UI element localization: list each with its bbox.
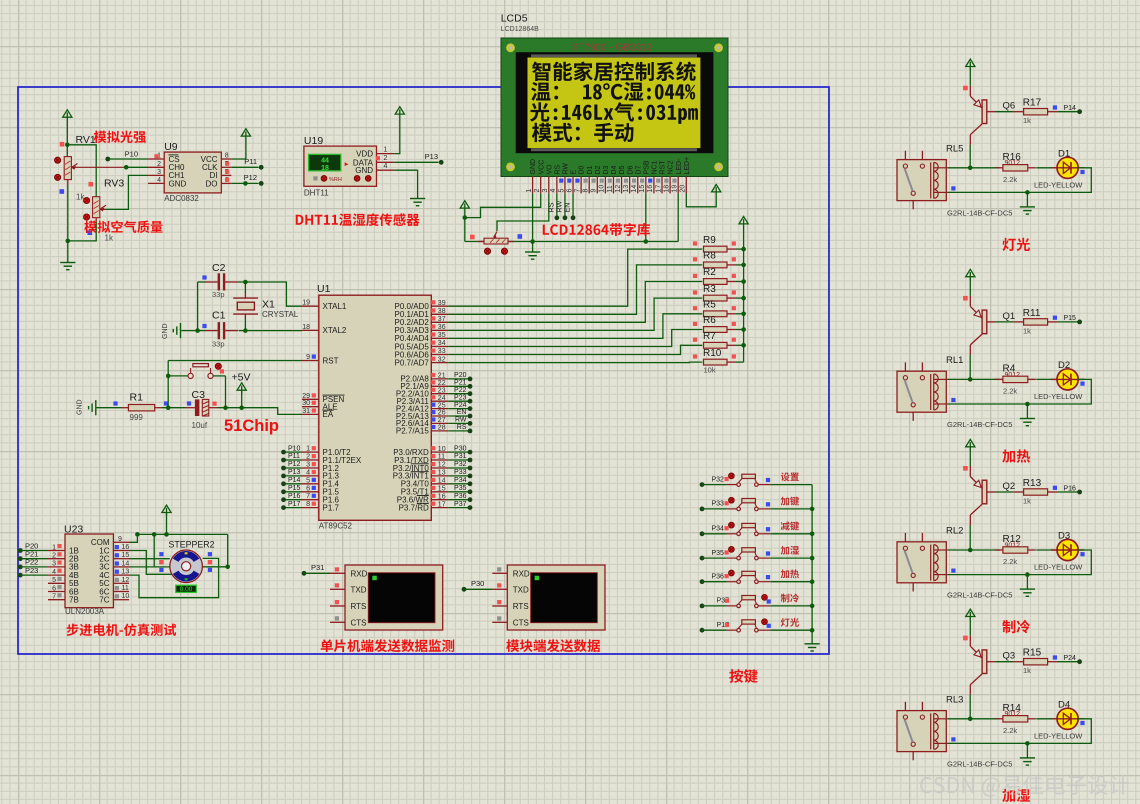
button 减键 (725, 522, 771, 535)
capacitor C1 (202, 310, 238, 349)
junction (1025, 402, 1030, 407)
label 加热 (1002, 449, 1030, 462)
svg-text:1k: 1k (1023, 326, 1031, 335)
svg-text:LED-YELLOW: LED-YELLOW (1034, 392, 1083, 401)
LCD screen (528, 54, 701, 151)
svg-text:4: 4 (306, 469, 310, 476)
wire ULN 1C to stepper (129, 551, 172, 575)
svg-text:17: 17 (655, 185, 662, 193)
junction (968, 548, 973, 553)
svg-text:13: 13 (122, 569, 130, 576)
button 加键 (725, 497, 771, 510)
svg-text:P34: P34 (454, 477, 467, 484)
svg-text:8: 8 (225, 153, 229, 160)
svg-text:R9: R9 (703, 235, 716, 246)
label 减键 (781, 521, 799, 530)
power arrow Q2 (966, 439, 975, 466)
svg-text:16: 16 (438, 493, 446, 500)
junction (1025, 741, 1030, 746)
wire button to bus (770, 557, 812, 559)
LCD screen text line1 (532, 61, 696, 81)
resistor R14 (995, 703, 1036, 735)
svg-text:1: 1 (52, 544, 56, 551)
junction (65, 143, 70, 148)
svg-text:32: 32 (438, 356, 446, 363)
svg-text:1k: 1k (1023, 116, 1031, 125)
svg-text:13: 13 (623, 185, 630, 193)
svg-text:R4: R4 (1003, 363, 1016, 374)
svg-text:P30: P30 (471, 579, 484, 588)
wire LCD pin3 VO to pot wiper (497, 193, 549, 231)
wire U19 GND (394, 170, 417, 198)
wire to RV3 top (67, 145, 96, 197)
wire C3 to 5V (218, 376, 242, 408)
svg-text:CTS: CTS (513, 618, 529, 627)
ULN2003A U23 body (64, 524, 113, 617)
svg-text:51Chip: 51Chip (224, 417, 279, 435)
node EN (571, 215, 576, 220)
wire RV1 supply (66, 121, 68, 157)
resistor R16 (995, 152, 1036, 184)
svg-text:16: 16 (122, 544, 130, 551)
label analog air quality (84, 220, 162, 233)
wire button to bus (770, 508, 812, 510)
wire to LED (1036, 167, 1056, 169)
power arrow pull-ups (739, 217, 748, 228)
wire RV divider bottom (68, 185, 96, 241)
svg-text:P21: P21 (454, 380, 467, 387)
svg-text:2: 2 (157, 161, 161, 168)
svg-text:29: 29 (302, 393, 310, 400)
svg-text:P10: P10 (288, 445, 301, 452)
junction (810, 556, 815, 561)
power +5V (232, 371, 251, 407)
junction (741, 279, 746, 284)
svg-text:Q6: Q6 (1003, 101, 1016, 112)
ground LCD contrast (525, 242, 540, 260)
svg-text:DO: DO (206, 179, 218, 188)
U1 pins right P2 (396, 373, 448, 436)
svg-text:2.2k: 2.2k (1003, 386, 1017, 395)
svg-text:EN: EN (457, 409, 467, 416)
svg-text:G2RL-14B-CF-DC5: G2RL-14B-CF-DC5 (947, 208, 1012, 217)
node P23 (18, 566, 48, 578)
wire to LED (1036, 549, 1056, 551)
label 设置 (781, 472, 799, 481)
svg-text:LCD5: LCD5 (501, 13, 528, 25)
svg-text:NC1: NC1 (652, 160, 659, 174)
resistor R13 (1014, 478, 1058, 506)
wire LED return (948, 550, 1091, 575)
svg-text:R14: R14 (1003, 703, 1022, 714)
svg-text:P31: P31 (454, 453, 467, 460)
U1 P1 port wires (281, 445, 302, 510)
svg-text:36: 36 (438, 324, 446, 331)
wire RST to U1 (168, 360, 302, 362)
wire U9 VCC to power (231, 140, 246, 160)
svg-text:TXD: TXD (513, 585, 529, 594)
resistor R8 (693, 251, 744, 268)
svg-text:4: 4 (384, 163, 388, 170)
svg-text:3: 3 (306, 462, 310, 469)
junction (239, 405, 244, 410)
svg-text:TXD: TXD (351, 585, 367, 594)
wire ULN 2C to stepper (129, 558, 170, 560)
svg-text:4: 4 (52, 569, 56, 576)
svg-text:11: 11 (438, 454, 445, 461)
svg-text:1k: 1k (1023, 497, 1031, 506)
wire LED return (948, 719, 1091, 744)
svg-text:CTS: CTS (351, 618, 367, 627)
junction (463, 215, 468, 220)
svg-text:▶: ▶ (345, 162, 349, 168)
junction (1025, 190, 1030, 195)
resistor R11 (1014, 308, 1058, 336)
stepper motor STEPPER2 (159, 539, 214, 582)
U1 P3 port wires (448, 445, 472, 510)
svg-text:2: 2 (384, 155, 388, 162)
LCD screen text line3 (530, 102, 698, 124)
svg-text:RL2: RL2 (946, 526, 963, 537)
junction (166, 374, 171, 379)
wire 5V to EA (242, 408, 302, 415)
svg-text:D5: D5 (619, 165, 626, 174)
svg-text:VDD: VDD (356, 150, 373, 159)
svg-text:RL3: RL3 (946, 694, 963, 705)
wire button to bus (770, 605, 812, 607)
junction (644, 239, 649, 244)
node P16 (1058, 485, 1082, 494)
node RW (563, 215, 568, 220)
resistor R7 (693, 331, 744, 348)
wire ULN 4C to stepper (129, 558, 219, 597)
svg-text:X1: X1 (262, 298, 275, 310)
svg-text:RTS: RTS (351, 602, 367, 611)
node P36 (700, 574, 727, 585)
svg-text:18: 18 (321, 165, 329, 172)
svg-text:P35: P35 (712, 550, 725, 557)
svg-text:28: 28 (438, 425, 446, 432)
svg-text:10k: 10k (704, 366, 716, 375)
U23 pins right (91, 536, 130, 605)
node RS (554, 215, 559, 220)
transistor value 9012 (1005, 372, 1021, 379)
resistor R3 (693, 284, 744, 301)
junction (243, 328, 248, 333)
svg-text:LED-YELLOW: LED-YELLOW (1034, 731, 1083, 740)
power arrow stepper (162, 505, 171, 516)
svg-text:RST: RST (660, 160, 667, 175)
svg-text:RS: RS (457, 424, 467, 431)
svg-text:10: 10 (122, 593, 130, 600)
svg-text:D2: D2 (595, 165, 602, 174)
wire LCD pin20 LED+ to power (686, 193, 716, 206)
node P11 (231, 157, 263, 170)
svg-text:P15: P15 (288, 485, 301, 492)
svg-text:STEPPER2: STEPPER2 (169, 539, 215, 549)
node P34 (700, 526, 727, 537)
svg-text:R7: R7 (703, 331, 716, 342)
wire coil row (948, 718, 1000, 720)
wire LCD pin15 PSB (645, 193, 647, 241)
node P20 (18, 541, 48, 553)
power arrow LED+ (712, 185, 721, 196)
wire pull-up rail (743, 228, 745, 363)
wire gnd to R1 (97, 407, 122, 409)
wire base (987, 321, 1014, 323)
wire coil row (948, 378, 1000, 380)
LED D4 (1034, 699, 1085, 740)
svg-text:D6: D6 (627, 165, 634, 174)
svg-text:P16: P16 (288, 493, 301, 500)
LED D2 (1034, 360, 1085, 401)
svg-text:P13: P13 (288, 469, 301, 476)
wire pot supply (464, 212, 466, 242)
node P21 (18, 550, 48, 562)
svg-text:R8: R8 (703, 251, 716, 262)
svg-text:1: 1 (384, 146, 388, 153)
junction (225, 565, 230, 570)
potentiometer RV3 (84, 178, 125, 243)
wire collector to coil (969, 145, 971, 168)
resistor R6 (693, 315, 744, 332)
wire collector to coil (969, 695, 971, 719)
svg-text:Q3: Q3 (1003, 651, 1016, 662)
wire LCD pin2 VCC (465, 193, 541, 217)
svg-text:44: 44 (321, 158, 329, 165)
junction (530, 239, 535, 244)
svg-text:C2: C2 (212, 262, 226, 274)
svg-text:Q1: Q1 (1003, 311, 1016, 322)
ground relay block (1020, 743, 1035, 765)
svg-text:11: 11 (122, 585, 129, 592)
resistor R10 (693, 348, 744, 375)
svg-text:P23: P23 (25, 566, 38, 575)
node P12 (231, 173, 263, 186)
svg-text:1k: 1k (1023, 666, 1031, 675)
svg-text:5: 5 (306, 477, 310, 484)
svg-text:2.2k: 2.2k (1003, 726, 1017, 735)
LCD header text ST7920 - GB2312 (572, 43, 653, 54)
svg-text:38: 38 (438, 308, 446, 315)
svg-text:GND: GND (77, 399, 84, 415)
svg-text:AT89C52: AT89C52 (319, 522, 353, 531)
svg-text:19: 19 (671, 185, 678, 193)
svg-text:U1: U1 (317, 283, 331, 295)
junction (741, 327, 746, 332)
wire C1 row to XTAL2 (198, 318, 302, 331)
svg-text:LCD12864B: LCD12864B (501, 26, 539, 33)
button 设置 (725, 473, 771, 486)
svg-text:7C: 7C (99, 596, 109, 605)
svg-text:D3: D3 (603, 165, 610, 174)
wire C2 right to XTAL1 (238, 282, 302, 306)
ground R1 (77, 399, 96, 415)
transistor Q2 (963, 466, 1015, 525)
svg-text:RXD: RXD (351, 569, 368, 578)
svg-text:P10: P10 (125, 150, 138, 159)
svg-text:R15: R15 (1023, 648, 1042, 659)
svg-text:P31: P31 (311, 563, 324, 572)
svg-text:10: 10 (438, 446, 446, 453)
svg-text:CRYSTAL: CRYSTAL (262, 310, 299, 319)
svg-text:2: 2 (534, 189, 541, 193)
resistor R17 (1014, 98, 1058, 126)
button 制冷 (725, 595, 771, 608)
label terminal 1 (321, 639, 455, 652)
svg-text:R3: R3 (703, 284, 716, 295)
svg-text:P32: P32 (454, 461, 467, 468)
svg-text:9: 9 (118, 536, 122, 543)
svg-text:P13: P13 (425, 152, 438, 161)
label 加湿 (1002, 789, 1030, 802)
svg-text:P20: P20 (454, 372, 467, 379)
node P10 (105, 150, 148, 162)
svg-text:NC2: NC2 (668, 160, 675, 174)
svg-text:2: 2 (52, 553, 56, 560)
wire RV3 wiper to CH1 (101, 175, 148, 209)
transistor Q1 (963, 296, 1015, 355)
wire to LED (1036, 378, 1056, 380)
svg-text:R10: R10 (703, 348, 722, 359)
svg-text:1: 1 (306, 446, 310, 453)
LCD module LCD5 labels (501, 13, 539, 34)
resistor R1 (113, 391, 168, 422)
wire R1 to RST net (162, 407, 187, 409)
svg-text:30: 30 (302, 400, 310, 407)
label 制冷 (781, 594, 799, 603)
svg-text:LED-: LED- (676, 158, 683, 175)
svg-text:24: 24 (438, 395, 446, 402)
svg-text:R17: R17 (1023, 98, 1042, 109)
wire coil row (948, 167, 1000, 169)
junction (66, 239, 71, 244)
junction (810, 532, 815, 537)
ADC U9 body (164, 141, 221, 203)
svg-text:D0: D0 (579, 165, 586, 174)
svg-text:34: 34 (438, 340, 446, 347)
svg-text:R1: R1 (130, 391, 144, 403)
transistor value 9012 (1005, 542, 1021, 549)
wire base (987, 661, 1014, 663)
DHT11 markers (313, 176, 371, 184)
svg-text:P12: P12 (288, 461, 301, 468)
wire button to bus (770, 484, 812, 486)
svg-text:33p: 33p (212, 340, 225, 349)
capacitor C2 (202, 262, 238, 299)
svg-text:14: 14 (438, 478, 446, 485)
node P24 (1058, 655, 1082, 664)
svg-text:GND: GND (355, 166, 373, 175)
node P15 (1058, 315, 1082, 324)
svg-text:%RH: %RH (329, 177, 342, 183)
resistor R4 (995, 363, 1036, 395)
ground crystal (162, 323, 181, 339)
sheet border (18, 87, 829, 654)
svg-text:3: 3 (157, 169, 161, 176)
svg-text:37: 37 (438, 316, 446, 323)
junction (741, 343, 746, 348)
junction (243, 280, 248, 285)
junction (968, 717, 973, 722)
svg-text:P23: P23 (454, 394, 467, 401)
svg-text:U9: U9 (164, 141, 178, 153)
label DHT11 sensor (296, 213, 420, 226)
svg-text:27: 27 (438, 417, 446, 424)
U1 P2 port wires (448, 372, 472, 433)
node P37 (700, 598, 730, 609)
wire LED return (948, 379, 1091, 404)
wire RST net riser (167, 361, 169, 408)
svg-text:R2: R2 (703, 267, 716, 278)
label 制冷 (1002, 620, 1030, 633)
U1 pins left (302, 300, 362, 513)
LCD screen text line4 (532, 123, 634, 142)
svg-text:14: 14 (631, 185, 638, 193)
svg-text:1k: 1k (105, 234, 114, 243)
ground relay block (1020, 575, 1035, 597)
svg-text:P34: P34 (712, 526, 725, 533)
relay RL5 (897, 143, 1012, 217)
svg-text:19: 19 (302, 300, 310, 307)
svg-text:3: 3 (542, 189, 549, 193)
svg-text:12: 12 (122, 577, 130, 584)
svg-text:P36: P36 (454, 493, 467, 500)
svg-text:P17: P17 (288, 501, 301, 508)
svg-text:R16: R16 (1003, 152, 1022, 163)
wires LCD pins RS RW E (546, 193, 573, 217)
wire button to bus (770, 629, 812, 631)
svg-text:RS: RS (554, 164, 561, 174)
svg-text:RV3: RV3 (104, 178, 124, 190)
U1 pins right P0 (395, 300, 449, 368)
LED D3 (1034, 531, 1085, 572)
svg-text:10: 10 (599, 185, 606, 193)
capacitor C3 (186, 389, 218, 430)
wire U19 VDD to power (394, 118, 400, 154)
wire contrast bus (465, 241, 678, 243)
junction (810, 604, 815, 609)
label analog light (94, 131, 146, 144)
crystal X1 (233, 282, 299, 319)
terminal VT1 MCU side (330, 565, 443, 630)
svg-text:VO: VO (546, 164, 553, 175)
power arrow U9 (241, 129, 250, 140)
LED D1 (1034, 148, 1085, 189)
junction (164, 532, 169, 537)
svg-text:R11: R11 (1023, 308, 1041, 319)
svg-text:P2.7/A15: P2.7/A15 (396, 427, 429, 436)
relay RL2 (897, 526, 1012, 600)
svg-text:P0.7/AD7: P0.7/AD7 (395, 358, 430, 367)
ground relay block (1020, 404, 1035, 426)
resistor R9 (693, 235, 744, 252)
svg-text:P11: P11 (288, 453, 300, 460)
svg-text:12: 12 (615, 185, 622, 193)
LCD pins 1-20 with numbers (526, 157, 691, 194)
svg-text:7B: 7B (69, 596, 79, 605)
svg-text:EA: EA (323, 410, 334, 419)
svg-text:2.2k: 2.2k (1003, 175, 1017, 184)
svg-text:10uf: 10uf (192, 421, 208, 430)
watermark (920, 775, 1129, 797)
relay RL3 (897, 694, 1012, 768)
svg-text:P30: P30 (454, 445, 467, 452)
svg-text:GND: GND (162, 323, 169, 339)
wire LCD pin1 to ground bus (532, 193, 534, 241)
power arrow contrast pot (460, 201, 469, 212)
ground RV divider (60, 241, 75, 270)
